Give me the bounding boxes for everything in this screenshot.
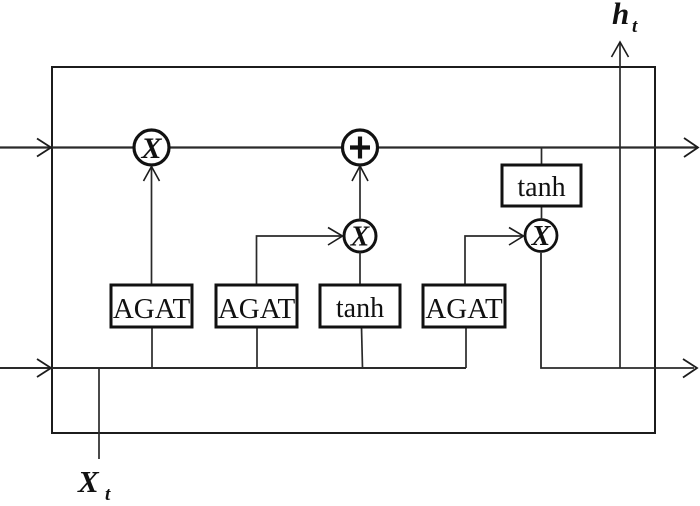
svg-text:X: X (350, 222, 371, 253)
gate box AGAT3 (423, 285, 505, 327)
outer cell box (52, 67, 655, 433)
wire: AGAT3 up and right to X3 (465, 236, 522, 286)
wire: bottom line to tanh1 (362, 327, 363, 368)
adder circle + (343, 130, 378, 165)
arrowhead output right (cell state) (684, 138, 698, 157)
multiplier circle X1 (134, 130, 169, 165)
arrowhead entering box left (input line) (37, 359, 51, 377)
svg-text:AGAT: AGAT (113, 293, 191, 325)
arrowhead h_t (612, 42, 629, 57)
svg-text:AGAT: AGAT (425, 293, 503, 325)
svg-text:X: X (531, 221, 552, 252)
svg-text:t: t (105, 484, 111, 505)
wire: tanh2 down to X3 (541, 206, 543, 220)
wire: X_t input vertical (98, 368, 100, 459)
wire: bottom line to AGAT1 (151, 327, 153, 368)
svg-text:AGAT: AGAT (218, 293, 296, 325)
arrowhead into adder (352, 166, 368, 181)
svg-text:tanh: tanh (517, 172, 565, 203)
wire: bottom line to AGAT3 (465, 327, 467, 368)
wire: AGAT1 to X1 (151, 167, 153, 286)
gate box tanh2 (502, 165, 581, 206)
arrowhead output bottom right (683, 359, 697, 378)
arrowhead into X1 (144, 167, 160, 182)
gate box tanh1 (320, 285, 400, 327)
wire: output line bottom-right segment (541, 253, 694, 368)
arrowhead entering box left (cell state) (37, 139, 51, 157)
wire: tanh1 to X2 (359, 252, 361, 286)
svg-text:X: X (77, 464, 100, 499)
wire: bottom line to AGAT2 (256, 327, 258, 368)
svg-text:tanh: tanh (336, 293, 384, 324)
svg-text:X: X (140, 132, 162, 165)
arrowhead into X3 (509, 228, 524, 246)
wire: cell line down to tanh2 (541, 147, 543, 165)
wire: AGAT2 up and right to X2 (257, 236, 342, 286)
wire: input line bottom-left segment (0, 367, 466, 369)
multiplier circle X2 (344, 220, 376, 252)
wire: h_t output vertical (619, 42, 621, 368)
multiplier circle X3 (525, 220, 557, 252)
arrowhead into X2 (328, 228, 343, 246)
svg-text:t: t (632, 16, 638, 37)
gate box AGAT2 (216, 285, 297, 327)
wire: cell state line (top horizontal) (0, 146, 698, 148)
svg-text:h: h (612, 0, 629, 31)
wire: X2 up to adder (359, 166, 361, 220)
gate box AGAT1 (111, 285, 192, 327)
